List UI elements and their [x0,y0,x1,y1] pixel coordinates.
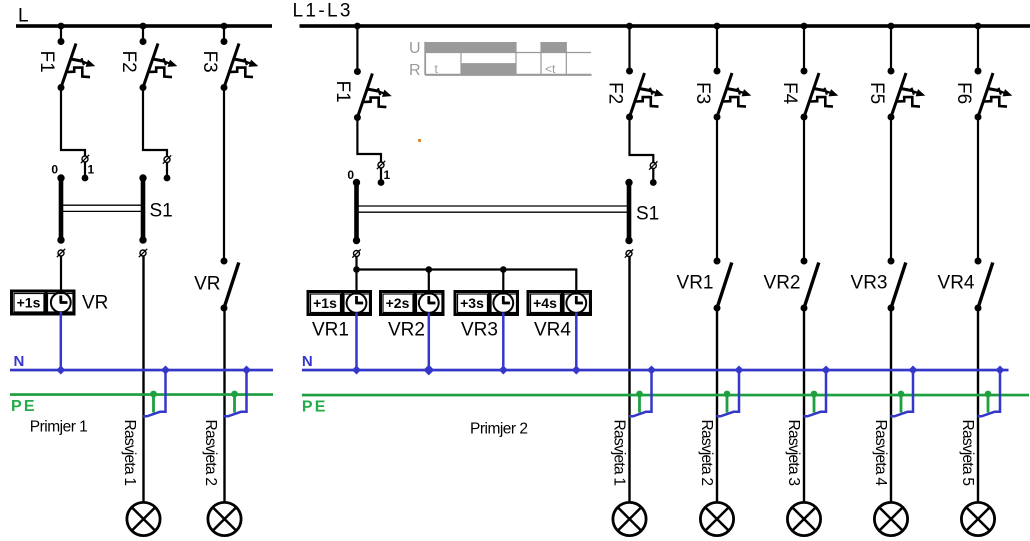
wire VR1 to N [355,313,358,371]
svg-text:1: 1 [88,163,95,177]
contact VR3 blade [888,258,906,312]
terminal circle F1r [377,161,385,169]
lamp 2 [208,502,241,535]
junction dot bus F1r [354,23,361,30]
lamp tap r4 [891,365,918,416]
junction dot bus F1 [58,23,65,30]
contact dot 1b [164,175,171,182]
svg-text:F1: F1 [332,81,353,103]
lamp tap r3 [804,365,831,416]
N junction dot VR1 [352,365,361,374]
N junction dot timer [56,365,65,374]
contact VR3 branch [890,117,892,261]
N junction dot VR3 [499,365,508,374]
breaker F4 right [779,68,839,121]
wire stub F1r [356,26,358,72]
breaker F2 right [604,68,664,121]
wire timer to N [60,312,63,370]
breaker F5 right [866,68,926,121]
svg-text:VR2: VR2 [764,273,801,294]
lamp r3 [787,502,820,535]
wire S1 B to lamp 1 [142,256,144,503]
timer relay VR1 [308,291,371,315]
svg-text:0: 0 [347,168,354,182]
contact VR2 branch [803,117,805,261]
junction dot bus F3 [221,23,228,30]
wire VR3 to N [502,313,505,371]
contact dot 1a right [378,179,385,186]
bus L1-L3 [300,24,1030,28]
timing diagram [409,40,592,79]
switch S1 bar A right [353,179,360,244]
junction dot bus F4r [801,23,808,30]
terminal below S1 bar A [57,249,65,257]
breaker F1 [36,38,96,91]
junction dot bus F6r [975,23,982,30]
timer relay VR [12,290,75,314]
lamp tap r5 [978,365,1005,416]
terminal circle F2r [649,161,657,169]
N line left [10,369,273,372]
lamp tap 2 [224,365,251,416]
svg-text:VR: VR [82,293,108,314]
svg-text:+4s: +4s [533,295,557,311]
timer relay VR4 [528,291,591,315]
junction dot bus F5r [888,23,895,30]
svg-text:VR2: VR2 [388,320,425,341]
wire VR2 to N [428,313,431,371]
breaker F3 [199,38,258,91]
svg-text:F1: F1 [36,51,57,73]
svg-text:PE: PE [302,399,326,416]
svg-text:S1: S1 [636,204,659,225]
svg-text:F6: F6 [953,82,974,104]
junction dot bus F2 [140,23,147,30]
svg-text:VR1: VR1 [312,320,349,341]
terminal circle F2 [163,155,171,163]
svg-text:+1s: +1s [17,295,41,311]
S1 linkage right [357,206,630,212]
svg-text:VR1: VR1 [677,273,714,294]
terminal below S1 bar B right [625,249,633,257]
svg-text:F3: F3 [692,82,713,104]
wire F1 to contact 1 [61,88,85,179]
wire F2r to contact 1 [630,117,654,183]
lamp tap r1 [629,365,656,416]
switch S1 bar B right [625,179,632,244]
svg-text:F2: F2 [604,82,625,104]
N line right [302,369,1009,372]
lamp r1 [613,502,646,535]
junction dot bus F3r [714,23,721,30]
svg-text:Rasvjeta 4: Rasvjeta 4 [872,420,889,487]
svg-text:VR3: VR3 [851,273,888,294]
breaker F6 right [953,68,1013,121]
lamp tap 1 [143,365,170,416]
wire contact to lamp 2 [223,308,225,503]
breaker F2 [118,38,178,91]
breaker F3 right [692,68,752,121]
wire F2 to contact 1 [143,88,167,179]
wire drop timer 2 [428,270,430,295]
terminal below S1 bar A right [352,249,360,257]
svg-text:Primjer 2: Primjer 2 [470,421,528,438]
svg-text:N: N [302,353,313,370]
svg-text:U: U [409,40,421,57]
lamp r2 [700,502,733,535]
svg-text:VR3: VR3 [461,320,498,341]
junction dot dist B [426,266,433,273]
svg-text:S1: S1 [150,201,173,222]
wire stub F3r [716,26,718,71]
wire stub F3 [223,26,225,42]
svg-text:VR4: VR4 [534,320,571,341]
svg-text:VR: VR [194,274,220,295]
wire VR3 to lamp 4 [890,308,892,503]
contact VR4 blade [975,258,993,312]
timer relay VR3 [455,291,518,315]
svg-text:Rasvjeta 2: Rasvjeta 2 [698,420,715,487]
PE line left [10,393,273,396]
terminal below S1 bar B [139,249,147,257]
wire VR4 to N [575,313,578,371]
svg-text:F4: F4 [779,82,800,105]
wire VR2 to lamp 3 [803,308,805,503]
wire VR4 to lamp 5 [977,308,979,503]
bus L [16,24,272,28]
switch S1 bar B [139,174,146,243]
svg-text:Rasvjeta 1: Rasvjeta 1 [121,420,138,487]
timer relay VR2 [381,291,444,315]
contact dot 1a [82,175,89,182]
contact dot 1b right [650,179,657,186]
wire S1 A to timer [60,256,62,293]
svg-text:VR4: VR4 [938,273,975,294]
contact VR (F3 branch) [223,88,225,262]
contact VR2 blade [801,258,819,312]
svg-text:Rasvjeta 5: Rasvjeta 5 [959,420,976,487]
svg-text:Primjer 1: Primjer 1 [30,419,88,436]
svg-text:N: N [14,353,25,370]
artifact dot [418,139,421,142]
lamp r4 [874,502,907,535]
terminal circle F1 [81,155,89,163]
switch S1 bar A [57,174,64,243]
S1 linkage [61,205,143,211]
contact VR1 blade [714,258,732,312]
lamp 1 [127,502,160,535]
svg-text:1: 1 [384,168,391,182]
svg-text:0: 0 [51,163,58,177]
svg-text:PE: PE [11,398,35,415]
wire drop timer 3 [502,270,504,295]
wire drop timer 1 [355,270,357,295]
svg-text:Rasvjeta 2: Rasvjeta 2 [202,420,219,487]
svg-text:+2s: +2s [386,295,410,311]
contact VR1 branch [716,117,718,261]
wire stub F5r [890,26,892,71]
wire stub F2r [628,26,630,71]
svg-text:+1s: +1s [313,295,337,311]
svg-text:L: L [18,6,29,27]
N junction dot VR2 [423,365,434,376]
wire F1r to contact 1 [357,118,381,183]
junction dot dist C [500,266,507,273]
wire stub F2 [142,26,144,42]
svg-text:F3: F3 [199,51,220,73]
svg-text:Rasvjeta 1: Rasvjeta 1 [611,420,628,487]
contact VR4 branch [977,117,979,261]
breaker F1 right [332,68,391,121]
svg-text:Rasvjeta 3: Rasvjeta 3 [785,420,802,487]
distribution wire to timers [357,257,577,293]
junction dot bus F2r [626,23,633,30]
svg-text:+3s: +3s [460,295,484,311]
svg-text:F5: F5 [866,82,887,104]
wire S1 B right to lamp 1 [628,257,630,504]
contact VR blade [221,258,239,312]
svg-text:R: R [409,62,421,79]
lamp r5 [961,502,994,535]
lamp tap r2 [717,365,744,416]
junction dot dist A [353,266,360,273]
svg-text:<t: <t [545,62,556,76]
PE line right [302,394,1029,397]
wire stub F6r [977,26,979,71]
N junction dot VR4 [572,365,581,374]
wire stub F4r [803,26,805,71]
wire VR1 to lamp 2 [716,308,718,503]
svg-text:F2: F2 [118,51,139,73]
wire stub F1 [60,26,62,42]
svg-text:L1-L3: L1-L3 [293,1,351,22]
